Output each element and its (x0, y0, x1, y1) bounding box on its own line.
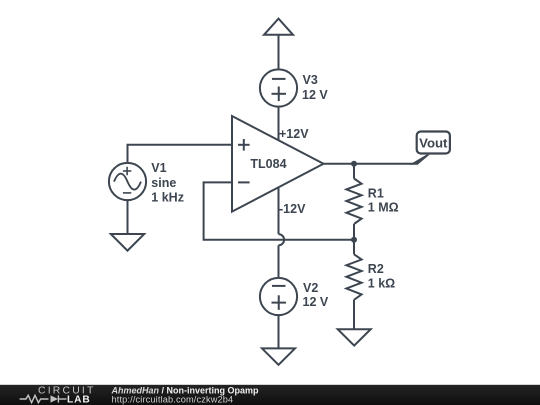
wire op-amp V- pin to V2 (hops over feedback wire) (279, 187, 285, 278)
ground (under R2) (338, 329, 371, 345)
svg-text:V1: V1 (151, 161, 166, 175)
svg-text:TL084: TL084 (250, 157, 286, 171)
footer bar (0, 385, 540, 405)
svg-text:V2: V2 (303, 281, 318, 295)
svg-text:sine: sine (151, 176, 176, 190)
wire V3 to op-amp V+ pin (278, 107, 280, 141)
svg-text:LAB: LAB (67, 395, 91, 405)
ground (under V2) (262, 348, 295, 364)
svg-text:R1: R1 (368, 186, 384, 200)
wire VCC to V3 (278, 35, 280, 70)
svg-text:1 kHz: 1 kHz (151, 190, 184, 204)
logo circuit symbol (resistor + diode) (20, 395, 67, 402)
wire op-amp output to Vout flag (324, 163, 414, 165)
svg-text:V3: V3 (303, 73, 318, 87)
voltage source V1 (sine) (109, 163, 146, 200)
svg-text:1 MΩ: 1 MΩ (368, 200, 399, 214)
ground (under V1) (111, 234, 144, 251)
wire V1 to op-amp non-inverting input (128, 145, 233, 163)
logo CIRCUIT text (38, 386, 96, 397)
power flag VCC (up arrow) (264, 19, 293, 35)
node junction: R1 / R2 / feedback (351, 237, 357, 243)
wire V2 to ground (278, 315, 280, 348)
op-amp U1 TL084 (232, 116, 324, 212)
svg-text:Vout: Vout (419, 136, 448, 151)
footer title: AhmedHan / Non-inverting Opamp (111, 385, 260, 395)
footer url (112, 395, 234, 405)
svg-text:+12V: +12V (279, 127, 309, 141)
svg-text:1 kΩ: 1 kΩ (368, 276, 395, 290)
svg-text:http://circuitlab.com/czkw2b4: http://circuitlab.com/czkw2b4 (112, 395, 234, 405)
net flag Vout (409, 132, 450, 165)
resistor R2 (346, 240, 361, 329)
resistor R1 (346, 164, 361, 240)
svg-text:12 V: 12 V (303, 295, 329, 309)
voltage source V2 (260, 278, 297, 315)
voltage source V3 (260, 69, 297, 106)
svg-text:-12V: -12V (279, 202, 306, 216)
svg-text:12 V: 12 V (302, 88, 328, 102)
wire feedback: inverting input to node between R1 and R2 (204, 182, 354, 239)
logo LAB text (67, 395, 91, 405)
node junction: output / R1 (351, 161, 357, 167)
svg-text:R2: R2 (368, 262, 384, 276)
wire V1 to ground (127, 200, 129, 234)
